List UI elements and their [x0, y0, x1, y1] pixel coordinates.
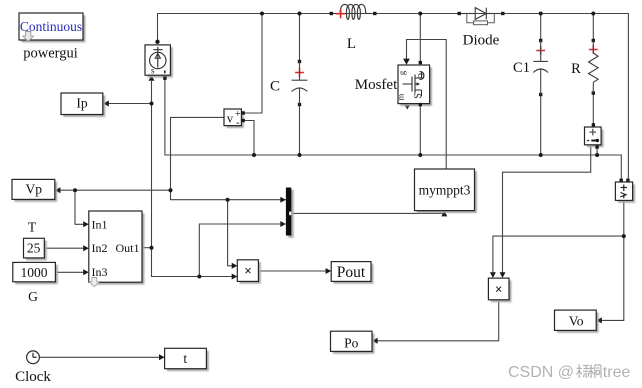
- svg-text:In3: In3: [92, 265, 108, 279]
- svg-text:In2: In2: [92, 241, 108, 255]
- svg-text:G: G: [28, 289, 38, 304]
- svg-text:mymppt3: mymppt3: [419, 183, 471, 198]
- svg-text:T: T: [28, 220, 37, 235]
- svg-text:Diode: Diode: [463, 32, 500, 48]
- svg-text:Clock: Clock: [15, 369, 51, 385]
- svg-text:s: s: [151, 66, 155, 76]
- svg-text:R: R: [571, 61, 581, 77]
- svg-text:In1: In1: [92, 218, 108, 232]
- svg-text:CSDN @: CSDN @: [508, 364, 574, 381]
- svg-text:t: t: [183, 351, 187, 366]
- svg-text:powergui: powergui: [23, 45, 78, 61]
- svg-text:×: ×: [244, 264, 251, 278]
- svg-text:S: S: [413, 93, 424, 99]
- svg-text:Mosfet: Mosfet: [355, 77, 398, 93]
- svg-text:Ip: Ip: [76, 95, 87, 110]
- svg-text:m: m: [396, 93, 406, 100]
- svg-text:1000: 1000: [21, 265, 48, 280]
- svg-text:25: 25: [27, 241, 41, 256]
- svg-text:v: v: [227, 111, 234, 125]
- svg-text:Pout: Pout: [337, 264, 366, 281]
- svg-text:tree: tree: [603, 364, 631, 381]
- svg-text:Out1: Out1: [116, 241, 140, 255]
- svg-text:L: L: [347, 36, 356, 52]
- svg-text:C: C: [270, 79, 280, 95]
- svg-text:×: ×: [495, 282, 502, 296]
- svg-text:Po: Po: [344, 335, 359, 350]
- svg-text:Vo: Vo: [569, 313, 584, 328]
- svg-text:D: D: [416, 73, 426, 79]
- svg-text:C1: C1: [513, 60, 530, 76]
- svg-text:-: -: [236, 117, 240, 129]
- svg-text:Vp: Vp: [26, 181, 43, 196]
